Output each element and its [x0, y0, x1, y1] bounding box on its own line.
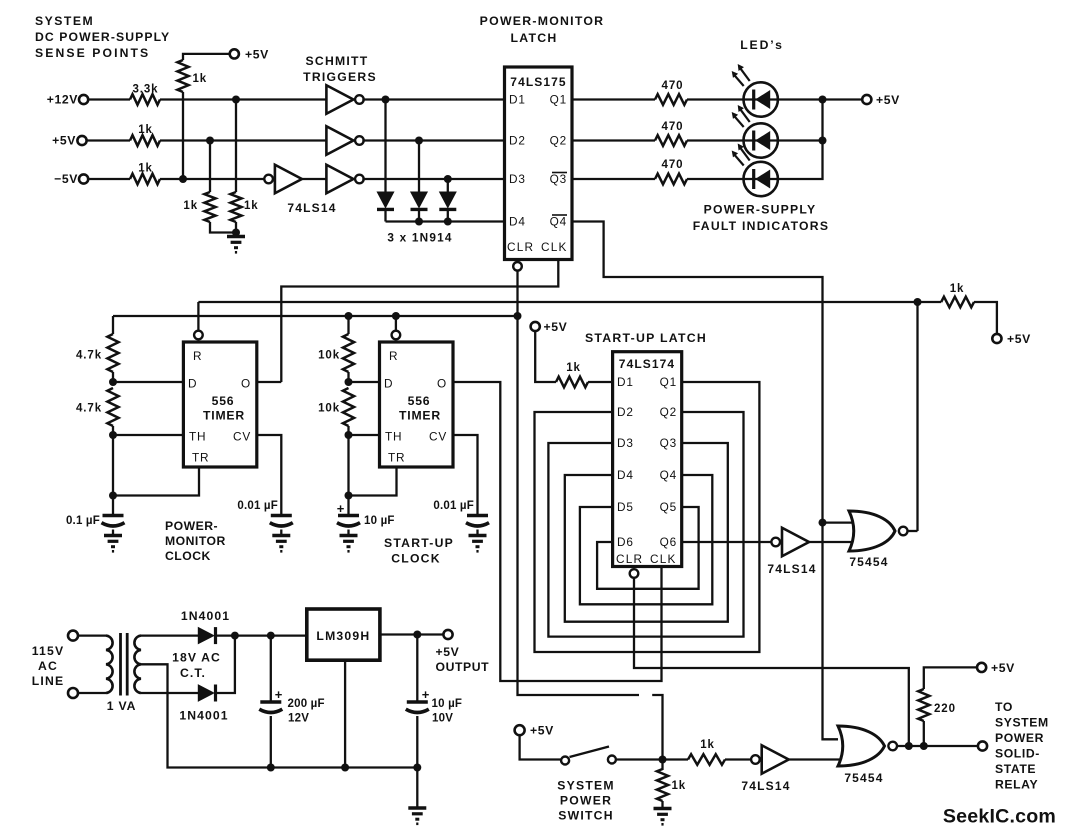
svg-text:1k: 1k [566, 362, 581, 374]
diode 1N914 #1 [377, 192, 393, 208]
wire Q3-bar to 470 [572, 178, 655, 180]
svg-text:3.3k: 3.3k [133, 84, 159, 96]
LED 3 [744, 162, 778, 196]
wire 75454 #2 output to relay terminal [897, 745, 978, 747]
svg-text:CLR: CLR [507, 240, 534, 254]
svg-text:TO: TO [995, 700, 1013, 714]
wire 75454 output pull-up vertical [916, 302, 918, 531]
wire 470 to LED 2 [687, 139, 744, 141]
svg-text:Q5: Q5 [660, 500, 677, 514]
wire secondary bottom to diode [141, 692, 198, 694]
svg-text:1k: 1k [700, 739, 715, 751]
diode 1N4001 top [198, 628, 214, 644]
svg-text:74LS174: 74LS174 [619, 357, 675, 371]
terminal +5V (switch) [515, 724, 554, 738]
svg-text:CLK: CLK [650, 552, 677, 566]
svg-text:+5V: +5V [530, 724, 554, 738]
wire R pull-up net (556 power-monitor R to 1k +5V) [198, 301, 941, 303]
label 18V AC C.T. [172, 651, 221, 681]
schmitt trigger 1 [326, 85, 353, 114]
wire +5V terminal to 1k pull-up [183, 54, 230, 60]
wire AC bottom to primary [78, 692, 106, 694]
pin R bubble (timer 2) [392, 331, 401, 340]
wire O output up to CLK line (timer 1) [257, 381, 282, 383]
node TH node (timer 2) [345, 431, 353, 439]
svg-text:0.01 µF: 0.01 µF [237, 500, 278, 512]
svg-text:D4: D4 [617, 468, 634, 482]
svg-text:3 x 1N914: 3 x 1N914 [387, 231, 452, 245]
ground (0.01uF timer1) [272, 530, 290, 552]
svg-text:TIMER: TIMER [203, 409, 245, 423]
svg-text:POWER: POWER [995, 731, 1044, 745]
pin Q4-bar label [550, 215, 567, 229]
svg-text:D3: D3 [509, 172, 526, 186]
svg-text:1 VA: 1 VA [107, 699, 136, 713]
svg-text:220: 220 [934, 703, 956, 715]
resistor 1k (D1 74LS174) [556, 362, 588, 387]
pin CLR bubble (74LS175) [513, 262, 522, 271]
node switch junction [659, 756, 667, 764]
svg-text:10k: 10k [318, 403, 340, 415]
svg-text:Q4: Q4 [660, 468, 677, 482]
capacitor 0.01 uF (timer 2 CV) [433, 500, 489, 526]
regulator U5 LM309H box [307, 609, 380, 660]
schmitt trigger 2 [326, 126, 353, 155]
svg-text:Q1: Q1 [550, 93, 567, 107]
wire feedback Q3 to D4 [565, 443, 728, 622]
svg-text:DC POWER-SUPPLY: DC POWER-SUPPLY [35, 30, 170, 44]
node relay node junction 1 [905, 742, 913, 750]
svg-text:1N4001: 1N4001 [181, 609, 230, 623]
svg-text:D5: D5 [617, 500, 634, 514]
wire CLK 74LS175 down [281, 260, 558, 383]
svg-text:Q2: Q2 [660, 405, 677, 419]
svg-text:4.7k: 4.7k [76, 350, 102, 362]
svg-text:556: 556 [408, 394, 431, 408]
svg-text:FAULT INDICATORS: FAULT INDICATORS [693, 219, 829, 233]
svg-text:200 µF: 200 µF [288, 698, 325, 710]
wire feedback Q5 to D6 [597, 507, 699, 589]
diode 1N914 #3 [440, 192, 456, 208]
inverter 74LS14 (switch) [751, 755, 760, 764]
terminal -5V input [54, 172, 88, 186]
wire through LED 3 [744, 178, 779, 180]
ground (0.01uF timer2) [469, 530, 487, 552]
wire O output (timer 2) to CLK 74LS174 [453, 382, 662, 681]
switch S1 contact 1 [561, 757, 569, 765]
svg-text:75454: 75454 [849, 555, 888, 569]
svg-text:12V: 12V [288, 713, 309, 725]
terminal +5V (pull-up) [992, 332, 1031, 346]
title POWER-MONITOR LATCH [480, 14, 605, 45]
wire 470 to LED 1 [687, 98, 744, 100]
svg-text:1N4001: 1N4001 [179, 709, 228, 723]
wire Q4-bar out [572, 222, 838, 740]
wire secondary top to diode [141, 634, 198, 636]
wire 1k to D1 pin [588, 381, 613, 383]
node rectifier junction [231, 632, 239, 640]
svg-text:Q3: Q3 [660, 436, 677, 450]
wire CLR 74LS175 down (reset net) [518, 271, 640, 695]
wire feedback Q1 to D2 [535, 382, 760, 652]
wire 10k lower to TH node (timer 2) [347, 426, 349, 435]
wire 1k to inverter [725, 758, 751, 760]
svg-text:115V: 115V [32, 644, 65, 658]
terminal +5V (D1 74LS174) [531, 320, 568, 334]
wire AC top to primary [78, 634, 106, 636]
wire schmitt 1 output to latch D1 [362, 98, 504, 100]
svg-text:O: O [437, 377, 447, 391]
wire inverter to 75454 #2 lower input [787, 758, 845, 760]
wire schmitt 3 output to latch D3 [362, 178, 504, 180]
label POWER-SUPPLY FAULT INDICATORS [693, 203, 829, 234]
svg-text:556: 556 [212, 394, 235, 408]
ground (power supply) [408, 806, 426, 809]
svg-text:TR: TR [192, 451, 209, 465]
node cap node (timer 1) [109, 492, 117, 500]
wire D node to timer D pin [113, 381, 183, 383]
wire bottom diode up to rectifier node [216, 636, 235, 693]
svg-text:1k: 1k [138, 163, 153, 175]
wire feedback Q2 to D3 [548, 412, 743, 637]
svg-text:1k: 1k [244, 200, 259, 212]
resistor 1k (switch to inverter) [688, 739, 725, 765]
svg-text:D: D [384, 377, 393, 391]
svg-text:D1: D1 [509, 93, 526, 107]
resistor 470 (LED 2) [655, 121, 687, 146]
svg-text:SCHMITT: SCHMITT [306, 54, 369, 68]
pin R bubble (timer 1) [194, 331, 203, 340]
timer U2 556 box (power-monitor clock) [183, 342, 256, 467]
wire diode to rectifier node [216, 634, 307, 636]
wire divider to ground [235, 222, 237, 236]
svg-text:D2: D2 [509, 134, 526, 148]
pin CLR CLK labels (74LS175) [507, 240, 568, 254]
svg-text:74LS14: 74LS14 [287, 201, 336, 215]
svg-text:LM309H: LM309H [316, 629, 370, 643]
svg-text:TRIGGERS: TRIGGERS [303, 70, 377, 84]
wire center tap to bottom rail [141, 664, 417, 767]
svg-text:CV: CV [233, 430, 251, 444]
svg-text:10 µF: 10 µF [432, 698, 463, 710]
wire Q4 net tap to 75454 upper input [823, 521, 857, 523]
terminal TO SYSTEM POWER SOLID-STATE RELAY [978, 700, 1049, 792]
wire 4.7k lower to TH node [112, 426, 114, 435]
svg-text:D3: D3 [617, 436, 634, 450]
resistor 4.7k (lower) [76, 388, 119, 426]
node LM309H ground rail junction [341, 764, 349, 772]
node Q4 net / 75454 input junction [819, 519, 827, 527]
wire CLR 74LS174 down and right to relay node [634, 578, 909, 746]
node output cap junction [413, 631, 421, 639]
svg-text:74LS14: 74LS14 [767, 562, 816, 576]
svg-text:TIMER: TIMER [399, 409, 441, 423]
svg-text:0.01 µF: 0.01 µF [433, 500, 474, 512]
svg-text:O: O [241, 377, 251, 391]
resistor 1k (right divider) [230, 192, 258, 222]
svg-text:SOLID-: SOLID- [995, 747, 1040, 761]
wire 1k pull-up down to -5V line [182, 92, 184, 179]
resistor 220 (relay pull-up) [918, 689, 956, 746]
wire 220 to +5V [924, 667, 977, 689]
pin CLR bubble (74LS174) [630, 569, 639, 578]
terminal +5V (relay pull-up) [977, 661, 1015, 675]
wire diode 1 to D4 line [384, 210, 386, 222]
switch S1 lever [570, 747, 610, 758]
wire -5V to R 1k [88, 178, 130, 180]
node ground junction [232, 229, 240, 237]
wire 1k to schmitt trigger 2 input [160, 139, 326, 141]
svg-text:TH: TH [385, 430, 402, 444]
svg-text:10k: 10k [318, 350, 340, 362]
svg-text:+5V: +5V [1007, 332, 1031, 346]
node LED2 anode junction [819, 137, 827, 145]
label 115V AC LINE [32, 644, 65, 688]
node diode 3 tap [444, 175, 452, 183]
wire filter cap down [270, 636, 272, 702]
wire 10uF down [416, 635, 418, 703]
svg-text:R: R [389, 349, 398, 363]
gate 75454 #1 [849, 511, 895, 551]
svg-text:TH: TH [189, 430, 206, 444]
terminal +5V OUTPUT [436, 630, 490, 674]
svg-text:Q6: Q6 [660, 535, 677, 549]
pin labels 74LS174 [616, 375, 677, 566]
svg-text:OUTPUT: OUTPUT [436, 660, 490, 674]
label SCHMITT TRIGGERS [303, 54, 377, 84]
node pull-up / 75454 output junction [914, 298, 922, 306]
node reset / CLR junction [514, 312, 522, 320]
LED 2 [744, 123, 778, 157]
title text SYSTEM DC POWER-SUPPLY SENSE POINTS [35, 14, 170, 60]
op: latch U1 74LS175 box [505, 67, 573, 260]
node relay node junction 2 [920, 742, 928, 750]
node D node (timer 2) [345, 378, 353, 386]
svg-text:AC: AC [38, 659, 58, 673]
svg-text:CLOCK: CLOCK [391, 552, 441, 566]
svg-text:1k: 1k [138, 124, 153, 136]
wire through LED 1 [744, 98, 779, 100]
node 200uF rail junction [267, 764, 275, 772]
wire LM309H ground pin [344, 660, 346, 767]
node diode 2 tap [415, 137, 423, 145]
wire D4 line (diode-OR) to latch D4 [386, 220, 505, 222]
svg-text:SYSTEM: SYSTEM [995, 716, 1049, 730]
svg-text:1k: 1k [950, 283, 965, 295]
node LED1 anode junction [819, 96, 827, 104]
svg-text:LATCH: LATCH [510, 31, 557, 45]
svg-text:CLK: CLK [541, 240, 568, 254]
svg-text:+5V: +5V [876, 93, 900, 107]
svg-text:−5V: −5V [54, 172, 78, 186]
wire rail to ground [416, 768, 418, 809]
capacitor 0.1 uF [66, 496, 125, 528]
svg-text:TR: TR [388, 451, 405, 465]
wire CV to 0.01uF (timer 2) [453, 435, 478, 514]
node reset / 10k junction [345, 312, 353, 320]
wire pull-up net corner down to R bubble [197, 302, 199, 331]
svg-text:Q2: Q2 [550, 134, 567, 148]
terminal +12V input [47, 93, 88, 107]
svg-text:RELAY: RELAY [995, 778, 1038, 792]
resistor 10k (lower) [318, 388, 354, 426]
node 10uF rail junction [413, 764, 421, 772]
wire CV to 0.01uF (timer 1) [257, 435, 282, 514]
node reset / R bubble junction [392, 312, 400, 320]
wire reset net stub to switch node [652, 695, 662, 760]
node filter cap junction [267, 632, 275, 640]
svg-text:SYSTEM: SYSTEM [35, 14, 94, 28]
svg-text:CLR: CLR [616, 552, 643, 566]
timer U3 556 box (start-up clock) [380, 342, 454, 467]
svg-text:CV: CV [429, 430, 447, 444]
svg-text:+5V: +5V [991, 661, 1015, 675]
wire Q6 to 74LS14 [682, 541, 772, 543]
node junction +12V / 1k column [232, 96, 240, 104]
resistor 470 (LED 3) [655, 159, 687, 184]
svg-text:D1: D1 [617, 375, 634, 389]
wire diode 3 to D4 line [447, 210, 449, 222]
wire 200uF to bottom rail [270, 716, 272, 768]
wire 75454 output to pull-up vertical [908, 530, 918, 532]
node diode 3 / D4 junction [444, 218, 452, 226]
capacitor 10 uF (start-up) [337, 496, 395, 528]
wire reset junction down to 10k [347, 316, 349, 334]
svg-text:LINE: LINE [32, 674, 65, 688]
svg-text:SENSE POINTS: SENSE POINTS [35, 46, 150, 60]
wire diode 2 lead [418, 141, 420, 193]
pin Q3-bar label [550, 172, 567, 186]
wire inverter to schmitt trigger 3 [302, 178, 326, 180]
svg-text:POWER: POWER [560, 794, 612, 808]
capacitor 10 uF 10V [406, 687, 462, 725]
svg-text:START-UP LATCH: START-UP LATCH [585, 331, 707, 345]
wire +5V line junction down to 1k divider [209, 141, 211, 193]
wire D node to timer 2 D pin [349, 381, 380, 383]
wire schmitt 2 output to latch D2 [362, 139, 504, 141]
diode 1N4001 bottom [198, 685, 214, 701]
wire reset line corner down to 4.7k [112, 316, 114, 334]
ground (switch) [654, 801, 672, 824]
svg-text:R: R [193, 349, 202, 363]
label SYSTEM POWER SWITCH [557, 779, 615, 823]
wire feedback Q4 to D5 [580, 475, 712, 604]
wire LM309H output [380, 633, 444, 635]
capacitor 200 uF 12V [259, 687, 324, 725]
wire inverter to 75454 lower input [807, 541, 856, 543]
svg-text:1k: 1k [183, 200, 198, 212]
svg-text:SYSTEM: SYSTEM [557, 779, 615, 793]
gate 75454 #2 [838, 726, 885, 766]
label START-UP CLOCK [384, 536, 454, 566]
wire +12V line junction down to 1k divider [235, 100, 237, 193]
svg-text:SWITCH: SWITCH [558, 809, 614, 823]
wire 470 to LED 3 [687, 178, 744, 180]
wire common anode to +5V [823, 98, 863, 100]
svg-text:C.T.: C.T. [180, 666, 206, 680]
resistor 1k (-5V sense) [130, 163, 160, 185]
wire 3.3k to schmitt trigger 1 input [160, 98, 326, 100]
wire +5V to R 1k [87, 139, 130, 141]
latch U4 74LS174 box [613, 352, 682, 567]
transformer T1 primary winding [106, 636, 113, 693]
wire diode 1 lead [384, 100, 386, 193]
svg-text:470: 470 [662, 159, 684, 171]
resistor 1k (left divider) [183, 192, 215, 222]
wire diode 2 to D4 line [418, 210, 420, 222]
svg-text:74LS14: 74LS14 [741, 779, 790, 793]
wire 1k to inverter input [160, 178, 264, 180]
capacitor 0.01 uF (timer 1 CV) [237, 500, 292, 526]
svg-text:Q3: Q3 [550, 172, 567, 186]
svg-text:1k: 1k [672, 780, 687, 792]
svg-text:10V: 10V [432, 713, 453, 725]
svg-text:D4: D4 [509, 215, 526, 229]
svg-text:+5V: +5V [436, 645, 460, 659]
wire 4.7k to D node [112, 372, 114, 382]
diode 1N914 #2 [411, 192, 427, 208]
ground (sense divider) [227, 235, 245, 238]
node cap node (timer 2) [345, 492, 353, 500]
svg-text:+: + [422, 687, 430, 702]
LED 1 [744, 82, 778, 116]
node diode 1 tap [382, 96, 390, 104]
svg-text:POWER-SUPPLY: POWER-SUPPLY [704, 203, 817, 217]
wire Q2 to 470 [572, 139, 655, 141]
wire diode 3 lead [447, 179, 449, 192]
svg-text:D: D [188, 377, 197, 391]
wire 1k to +5V terminal [974, 302, 997, 334]
svg-text:Q1: Q1 [660, 375, 677, 389]
node diode 2 / D4 junction [415, 218, 423, 226]
terminal +5V input [52, 134, 86, 148]
wire switch to junction [616, 758, 688, 760]
label POWER-MONITOR CLOCK [165, 519, 226, 563]
svg-text:CLOCK: CLOCK [165, 549, 211, 563]
svg-text:470: 470 [662, 121, 684, 133]
svg-text:18V AC: 18V AC [172, 651, 221, 665]
wire TR pin routing (timer 2) [349, 467, 397, 496]
wire TR pin routing (timer 1) [113, 467, 199, 496]
wire R bubble up to reset line (timer 2) [395, 316, 397, 331]
svg-text:D6: D6 [617, 535, 634, 549]
wire +5V to switch pole [520, 735, 561, 759]
wire TH node to timer TH pin [113, 434, 183, 436]
svg-text:+: + [275, 687, 283, 702]
wire Q1 to 470 [572, 98, 655, 100]
svg-text:4.7k: 4.7k [76, 403, 102, 415]
wire +5V down to 1k (D1) [535, 331, 556, 382]
svg-text:+12V: +12V [47, 93, 78, 107]
svg-text:+5V: +5V [544, 320, 568, 334]
ground (10uF) [340, 530, 358, 552]
resistor 1k (switch pull-down) [657, 769, 686, 801]
wire reset line (4.7k top to CLR) [113, 315, 518, 317]
wire 10k to D node (timer 2) [347, 372, 349, 382]
wire TH node to timer 2 TH pin [349, 434, 380, 436]
svg-text:10 µF: 10 µF [364, 515, 395, 527]
svg-text:1k: 1k [193, 73, 208, 85]
svg-text:+5V: +5V [52, 134, 76, 148]
svg-text:MONITOR: MONITOR [165, 534, 226, 548]
ground (0.1uF) [104, 530, 122, 552]
terminal +5V pull-up [230, 47, 269, 61]
resistor 3.3k [130, 84, 160, 105]
svg-text:POWER-: POWER- [165, 519, 218, 533]
wire 10uF to bottom rail [416, 716, 418, 768]
svg-text:+5V: +5V [245, 47, 269, 61]
resistor 4.7k (upper) [76, 334, 119, 372]
